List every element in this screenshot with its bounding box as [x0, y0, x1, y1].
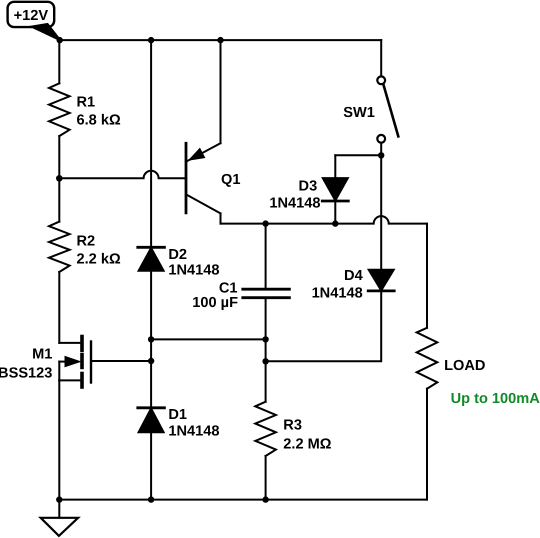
- wire: D2 column from top rail to D2: [150, 40, 152, 247]
- svg-text:D2: D2: [168, 247, 187, 263]
- svg-text:1N4148: 1N4148: [269, 195, 320, 211]
- junction top/D2: [148, 37, 154, 43]
- switch SW1: [343, 40, 398, 155]
- wire: M1 source to bottom rail: [58, 380, 60, 499]
- wire: mid horizontal D2 column to C1 column: [151, 338, 266, 340]
- svg-text:SW1: SW1: [343, 105, 375, 121]
- junction gate/D column: [148, 358, 154, 364]
- ground symbol: [41, 500, 78, 536]
- junction D2-D1/mid wire: [148, 336, 154, 342]
- diode D3 (1N4148, pointing down): [269, 178, 348, 211]
- wire: top +12V rail: [60, 39, 382, 41]
- svg-text:2.2 MΩ: 2.2 MΩ: [283, 437, 331, 453]
- svg-text:1N4148: 1N4148: [168, 262, 219, 278]
- svg-text:R2: R2: [77, 234, 96, 250]
- junction ground rail left: [56, 496, 62, 502]
- svg-text:M1: M1: [32, 347, 52, 363]
- transistor M1 (BSS123 N-MOSFET): [0, 337, 91, 388]
- wire: node A to Q1 base with hop over D2 column: [59, 171, 186, 179]
- wire: M1 gate to D1/D2 column: [91, 360, 151, 362]
- wire: bottom ground rail: [59, 499, 427, 501]
- wire: D3 cathode to collector run: [334, 201, 336, 224]
- svg-text:R1: R1: [77, 94, 96, 110]
- svg-text:R3: R3: [283, 418, 302, 434]
- resistor R2: [49, 222, 70, 272]
- transistor Q1 (PNP): [186, 143, 240, 223]
- svg-text:+12V: +12V: [14, 8, 49, 24]
- svg-text:BSS123: BSS123: [0, 366, 52, 382]
- svg-text:100 µF: 100 µF: [192, 295, 238, 311]
- wire: LOAD bottom to bottom rail corner: [426, 389, 428, 500]
- svg-text:D1: D1: [168, 407, 187, 423]
- node A dot: [56, 175, 62, 181]
- svg-text:Q1: Q1: [221, 172, 240, 188]
- wire: left rail between R1 and R2: [58, 136, 60, 222]
- wire: Q1 collector run to right corner with hop over D4 column: [221, 216, 428, 223]
- resistor R1: [49, 83, 70, 136]
- wire: D1 anode to bottom rail: [150, 432, 152, 499]
- svg-text:LOAD: LOAD: [444, 358, 485, 374]
- wire: C1 column down to R3: [265, 339, 267, 401]
- junction SW1/D3/D4: [378, 152, 384, 158]
- svg-text:6.8 kΩ: 6.8 kΩ: [77, 113, 121, 129]
- node +12V: [57, 37, 63, 43]
- diode D2 (1N4148, pointing up): [138, 247, 220, 279]
- svg-text:2.2 kΩ: 2.2 kΩ: [77, 251, 121, 267]
- svg-text:D3: D3: [299, 179, 318, 195]
- svg-text:1N4148: 1N4148: [312, 286, 363, 302]
- wire: R3 to bottom rail: [265, 456, 267, 500]
- diode D1 (1N4148, pointing up): [138, 407, 220, 439]
- wire: left rail R2 to M1 drain: [58, 272, 60, 343]
- wire: D2 anode down to D1 cathode: [150, 271, 152, 408]
- capacitor C1 100 uF: [192, 224, 289, 340]
- junction C1/collector: [262, 220, 268, 226]
- node A junction dot (R1/R2/base): [56, 175, 62, 181]
- diode D4 (1N4148, pointing down): [312, 268, 395, 301]
- svg-text:Up to 100mA: Up to 100mA: [451, 391, 540, 407]
- junction ground rail D1: [148, 496, 154, 502]
- junction C1/mid wire: [262, 336, 268, 342]
- svg-text:1N4148: 1N4148: [168, 423, 219, 439]
- svg-text:D4: D4: [344, 268, 364, 284]
- junction C1 col/D4 return: [262, 358, 268, 364]
- wire: SW1 junction to D3 top: [335, 154, 381, 156]
- junction ground rail R3: [262, 496, 268, 502]
- load resistor LOAD: [417, 224, 486, 389]
- power source +12V label box: [8, 2, 55, 27]
- junction D3/collector: [332, 220, 338, 226]
- +12V pointer wedge: [32, 24, 61, 40]
- wire: left rail upper (node to R1): [58, 40, 60, 83]
- resistor R3: [255, 402, 276, 456]
- wire: SW1 junction down to D4 (passes over collector run): [380, 155, 382, 269]
- wire: D4 cathode down and left to C1 column: [266, 291, 382, 361]
- wire: Q1 emitter to top rail: [220, 40, 222, 143]
- junction top/Q1e: [217, 37, 223, 43]
